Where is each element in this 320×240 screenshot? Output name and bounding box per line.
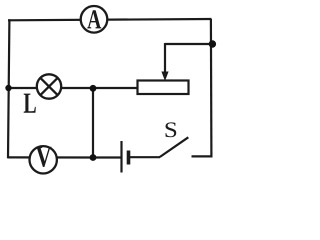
wire top horizontal	[8, 19, 212, 20]
switch label S	[166, 122, 177, 137]
arrowhead of rheostat wiper	[161, 72, 168, 82]
wire left vertical	[8, 19, 9, 158]
junction node lamp-right	[90, 85, 97, 92]
ammeter A circle	[81, 6, 108, 33]
lamp cross stroke 1	[40, 78, 57, 95]
wire right vertical	[210, 19, 213, 157]
battery long plate (positive)	[120, 141, 122, 173]
wire rheostat wiper vertical	[164, 43, 166, 74]
junction node bottom-middle	[90, 154, 97, 161]
junction node wiper-right	[209, 40, 216, 47]
junction node lamp-left	[5, 85, 11, 91]
lamp cross stroke 2	[40, 78, 57, 95]
wire bottom middle segment to battery	[93, 156, 121, 158]
switch S blade	[160, 137, 189, 157]
lamp L circle	[37, 74, 61, 98]
wire middle vertical	[92, 88, 94, 158]
voltmeter label V	[36, 147, 52, 167]
lamp label L	[24, 94, 36, 113]
voltmeter V circle	[30, 146, 57, 173]
wire rheostat wiper horizontal	[165, 43, 212, 45]
wire switch contact to bottom right corner	[192, 155, 213, 157]
wire lamp row horizontal	[8, 87, 139, 89]
rheostat R box	[138, 81, 189, 95]
ammeter label A	[87, 10, 101, 28]
wire battery to switch pivot	[129, 156, 160, 158]
wire bottom left segment	[8, 156, 93, 158]
battery short thick plate (negative)	[127, 151, 131, 165]
